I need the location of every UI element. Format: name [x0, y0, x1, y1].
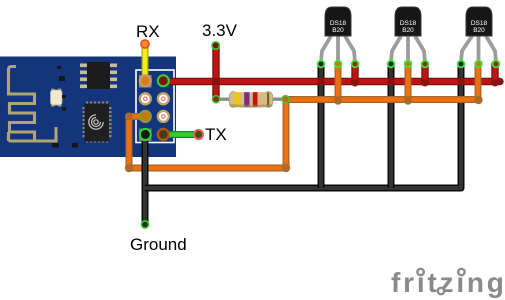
fritzing watermark — [391, 267, 505, 298]
junction resistor left / 3.3V — [212, 96, 219, 103]
svg-text:Ground: Ground — [130, 235, 187, 254]
DS18B20 sensor 1 — [318, 7, 359, 67]
crossing patch — [212, 78, 219, 85]
sensor1 data leg wire — [335, 64, 342, 100]
elbow bend orange wire bottom-left — [125, 164, 133, 172]
sensor2 ground leg wire — [388, 64, 395, 188]
elbow sensor3 data — [474, 96, 482, 104]
pin GPIO data (row3 left) — [140, 111, 151, 122]
ESP8266 ESP-01 module PCB — [0, 57, 176, 158]
resistor R1 body — [229, 92, 273, 108]
DS18B20 sensor 2 — [388, 7, 429, 67]
svg-text:B20: B20 — [402, 27, 414, 34]
resistor R1 4.7k leads — [218, 97, 285, 100]
vcc stub elbow sensor2 — [422, 80, 429, 87]
svg-text:DS18: DS18 — [330, 20, 347, 27]
vcc stub elbow sensor3 — [492, 80, 499, 87]
SMD passives on PCB — [52, 66, 78, 148]
pin TX (row4 right) — [158, 129, 169, 140]
pin GND (row4 left) — [140, 129, 151, 140]
sensor2 vcc stub (red) — [421, 64, 428, 84]
ground wire from module down (black) — [142, 135, 149, 223]
data rail to sensors (orange) — [285, 64, 478, 100]
red rail end cap — [496, 78, 503, 85]
3.3V feed wire (red vertical) — [212, 46, 219, 99]
pin RX (row1 left) — [140, 75, 151, 86]
sensor1 ground leg wire — [318, 64, 325, 188]
svg-text:B20: B20 — [473, 27, 485, 34]
pin VCC (row1 right) — [158, 75, 169, 86]
pin row2 right (unconnected) — [158, 93, 169, 104]
vcc stub elbow sensor1 — [352, 80, 359, 87]
ground rail (black) — [145, 64, 461, 188]
ground wire tip — [141, 221, 148, 228]
flash chip U2 — [80, 62, 117, 89]
pin header outline — [136, 70, 174, 143]
svg-text:RX: RX — [136, 22, 160, 41]
sensor3 vcc stub (red) — [491, 64, 498, 84]
ESP8266 chip U3 — [83, 102, 112, 143]
svg-text:DS18: DS18 — [471, 20, 488, 27]
pin row2 left (unconnected) — [140, 93, 151, 104]
svg-text:B20: B20 — [332, 27, 344, 34]
header pad RX pin — [139, 75, 152, 88]
junction resistor right / data — [282, 96, 289, 103]
header pad GND pin — [139, 129, 152, 142]
lower data wire: pin to left, down, right, up to resistor (orange) — [129, 100, 286, 168]
crystal Y1 — [51, 89, 63, 107]
red rail over black crossing s2 — [388, 78, 395, 84]
pin row3 right (unconnected) — [158, 111, 169, 122]
svg-text:frıtzıng: frıtzıng — [391, 267, 505, 298]
red rail over black crossing s1 — [318, 78, 325, 84]
svg-text:DS18: DS18 — [400, 20, 417, 27]
PCB antenna trace — [9, 67, 57, 142]
elbow bend orange wire at pin row — [125, 113, 133, 121]
sensor2 data leg wire — [405, 64, 412, 100]
junction sensor1 data — [334, 96, 342, 104]
TX wire end tip — [194, 130, 203, 139]
sensor1 vcc stub (red) — [351, 64, 358, 84]
3.3V wire top tip — [212, 42, 220, 50]
junction sensor2 data — [404, 96, 412, 104]
svg-text:3.3V: 3.3V — [202, 21, 238, 40]
TX wire (green) — [163, 131, 198, 138]
3.3V rail (red) from module to right — [163, 78, 500, 85]
red rail over black crossing s3 — [458, 78, 465, 84]
svg-text:TX: TX — [205, 125, 227, 144]
DS18B20 sensor 3 — [458, 7, 500, 67]
RX wire top tip — [141, 40, 149, 48]
elbow bend orange wire bottom-right — [282, 164, 290, 172]
RX wire (yellow) — [142, 46, 149, 81]
